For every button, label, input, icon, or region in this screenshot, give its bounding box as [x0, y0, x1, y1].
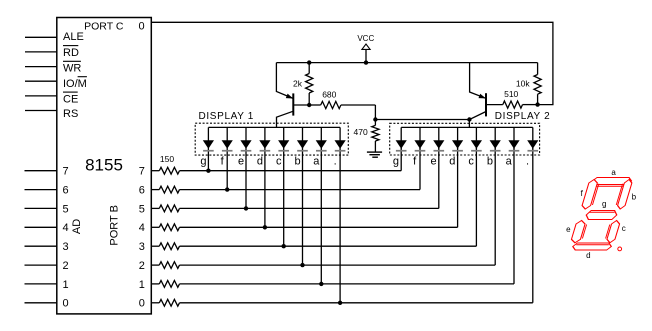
label DISPLAY 2 [495, 111, 551, 122]
node PB2 to display1 [300, 263, 304, 267]
wire pin AD2 [25, 264, 57, 266]
svg-text:IO/M: IO/M [63, 78, 87, 90]
svg-text:RD: RD [63, 47, 79, 59]
pin number PB7 [139, 166, 145, 178]
LED segment D1-d [259, 140, 270, 151]
svg-text:0: 0 [138, 20, 144, 32]
wire riser display2 . [532, 148, 534, 303]
segment label D2-e [430, 156, 436, 168]
pin number AD1 [63, 279, 69, 291]
svg-text:0: 0 [63, 298, 69, 310]
wire 470 node to Q2 collector [375, 119, 469, 121]
node VCC on rail [364, 60, 368, 64]
svg-text:1: 1 [63, 279, 69, 291]
svg-text:7: 7 [63, 166, 69, 178]
display 1 dashed box [195, 123, 348, 155]
svg-text:f: f [221, 156, 225, 168]
resistor R7 150 row PB1 with wire [151, 281, 514, 288]
LED segment D1-g [203, 140, 214, 151]
red 7-segment figure segment e [570, 221, 587, 243]
pin number AD3 [63, 241, 69, 253]
pin number PB2 [139, 260, 145, 272]
node Q1 base [307, 103, 311, 107]
LED segment D1-. [335, 140, 346, 151]
label 2k [293, 78, 303, 88]
svg-text:g: g [393, 156, 399, 168]
wire pin ALE [25, 36, 57, 38]
resistor R2 150 row PB6 with wire [151, 186, 420, 193]
segment label D1-. [334, 156, 337, 168]
pin number PB1 [139, 279, 145, 291]
node 2k top [307, 60, 311, 64]
svg-text:5: 5 [63, 203, 69, 215]
red 7-segment figure segment g [585, 211, 618, 220]
wire riser display2 d [457, 148, 459, 227]
segment label D2-f [413, 156, 417, 168]
svg-text:c: c [622, 224, 626, 233]
resistor 470 [372, 120, 379, 153]
wire display2 column stub c [475, 127, 477, 148]
red figure label a [611, 168, 616, 177]
wire pin CE [25, 95, 57, 97]
segment label D2-. [526, 156, 529, 168]
node PB4 to display1 [263, 225, 267, 229]
red figure label f [581, 189, 584, 198]
resistor 510 [486, 101, 538, 108]
pin label ALE [63, 31, 84, 43]
resistor R1 150 row PB7 with wire [151, 167, 401, 174]
LED segment D1-e [240, 140, 251, 151]
transistor Q1 base bar [292, 93, 294, 115]
wire riser display2 c [475, 148, 477, 246]
resistor R6 150 row PB2 with wire [151, 262, 495, 269]
segment label D1-a [313, 156, 320, 168]
LED segment D2-f [414, 140, 425, 151]
LED segment D2-d [452, 140, 463, 151]
svg-text:c: c [468, 156, 474, 168]
svg-text:.: . [334, 156, 337, 168]
label PORT C [84, 20, 124, 32]
pin number AD6 [63, 185, 69, 197]
segment label D2-g [393, 156, 399, 168]
resistor 680 [309, 101, 375, 119]
wire display1 column d [264, 127, 266, 227]
label 10k [516, 78, 530, 88]
svg-text:e: e [430, 156, 436, 168]
svg-text:PORT C: PORT C [84, 20, 124, 32]
segment label D2-d [449, 156, 455, 168]
wire riser display2 e [438, 148, 440, 208]
red 7-segment figure segment a [591, 178, 633, 187]
wire pin RD [25, 51, 57, 53]
wire display2 column stub e [438, 127, 440, 148]
wire display2 column stub a [513, 127, 515, 148]
svg-text:d: d [449, 156, 455, 168]
red 7-segment figure segment b [615, 180, 633, 210]
svg-text:10k: 10k [516, 78, 530, 88]
label DISPLAY 1 [199, 111, 255, 122]
svg-text:6: 6 [139, 185, 145, 197]
segment label D1-d [257, 156, 263, 168]
red 7-segment figure segment d [572, 243, 613, 250]
ground [367, 152, 382, 157]
node PB7 to display1 [206, 169, 210, 173]
transistor Q1 emitter arrow [286, 94, 293, 99]
svg-text:d: d [586, 251, 590, 260]
red figure label d [586, 251, 590, 260]
svg-text:c: c [276, 156, 282, 168]
LED segment D2-a [508, 140, 519, 151]
red figure label b [632, 192, 637, 201]
pin number AD0 [63, 298, 69, 310]
wire VCC rail [276, 62, 537, 64]
resistor R8 150 row PB0 with wire [151, 299, 533, 306]
wire pin RS [25, 110, 57, 112]
svg-text:7: 7 [139, 166, 145, 178]
resistor 10k [534, 63, 541, 105]
transistor Q2 base bar [485, 93, 487, 116]
segment label D1-e [238, 156, 244, 168]
pin label WR [63, 61, 81, 74]
wire pin AD3 [25, 245, 57, 247]
svg-text:2: 2 [139, 260, 145, 272]
wire pin AD5 [25, 207, 57, 209]
node PB0 to display1 [338, 301, 342, 305]
VCC supply symbol [357, 34, 374, 63]
wire pin AD6 [25, 189, 57, 191]
wire PC0 to 10k node [151, 22, 553, 104]
label PORT B [109, 205, 121, 246]
svg-text:RS: RS [63, 108, 78, 120]
wire display2 column stub b [494, 127, 496, 148]
svg-text:a: a [313, 156, 320, 168]
svg-text:6: 6 [63, 185, 69, 197]
red 7-segment figure segment f [581, 180, 600, 210]
svg-text:e: e [566, 225, 571, 234]
svg-text:f: f [413, 156, 417, 168]
svg-text:g: g [200, 156, 206, 168]
wire display2 column stub d [457, 127, 459, 148]
svg-text:2: 2 [63, 260, 69, 272]
pin number PC0 [138, 20, 144, 32]
wire display1 column e [245, 127, 247, 208]
svg-text:4: 4 [139, 222, 145, 234]
svg-text:a: a [611, 168, 616, 177]
segment label D2-c [468, 156, 474, 168]
pin number PB6 [139, 185, 145, 197]
svg-text:DISPLAY 2: DISPLAY 2 [495, 111, 551, 122]
svg-text:150: 150 [160, 154, 174, 164]
svg-text:3: 3 [139, 241, 145, 253]
segment label D2-a [506, 156, 513, 168]
wire pin WR [25, 66, 57, 68]
wire riser display2 b [494, 148, 496, 265]
pin number AD4 [63, 222, 69, 234]
pin label IO/M [63, 77, 87, 90]
svg-text:.: . [526, 156, 529, 168]
svg-text:e: e [238, 156, 244, 168]
pin number AD7 [63, 166, 69, 178]
svg-text:b: b [632, 192, 637, 201]
wire display2 anode bus [401, 126, 533, 128]
wire display1 column . [339, 127, 341, 302]
svg-text:8155: 8155 [85, 155, 123, 174]
red figure label e [566, 225, 571, 234]
wire display1 column f [226, 127, 228, 189]
svg-text:680: 680 [322, 89, 336, 99]
pin number PB4 [139, 222, 145, 234]
pin label CE [63, 92, 78, 105]
label 680 [322, 89, 336, 99]
node PB3 to display1 [282, 244, 286, 248]
segment label D1-c [276, 156, 282, 168]
wire pin AD7 [25, 170, 57, 172]
svg-text:2k: 2k [293, 78, 303, 88]
svg-text:AD: AD [71, 219, 83, 234]
node PB6 to display1 [225, 187, 229, 191]
node 470 top [373, 117, 377, 121]
display 2 dashed box [390, 123, 540, 155]
svg-text:b: b [487, 156, 493, 168]
segment label D1-f [221, 156, 225, 168]
label 510 [504, 89, 518, 99]
LED segment D1-f [222, 140, 233, 151]
resistor R5 150 row PB3 with wire [151, 243, 476, 250]
svg-text:b: b [294, 156, 300, 168]
svg-text:WR: WR [63, 63, 81, 75]
wire display1 column g [207, 127, 209, 170]
node PB1 to display1 [319, 282, 323, 286]
wire display2 column stub g [400, 127, 402, 148]
wire riser display2 g [400, 148, 402, 171]
svg-text:470: 470 [354, 127, 368, 137]
red figure label g [602, 199, 606, 208]
label 470 [354, 127, 368, 137]
red figure label c [622, 224, 626, 233]
red 7-segment figure segment c [604, 221, 620, 243]
pin number PB3 [139, 241, 145, 253]
red 7-segment decimal point [618, 247, 622, 251]
wire display2 column stub f [419, 127, 421, 148]
wire Q1 base [293, 104, 309, 106]
wire display1 anode bus [208, 126, 340, 128]
wire pin AD1 [25, 283, 57, 285]
wire pin AD0 [25, 302, 57, 304]
svg-text:VCC: VCC [357, 34, 374, 43]
segment label D1-g [200, 156, 206, 168]
pin number PB5 [139, 203, 145, 215]
LED segment D2-g [396, 140, 407, 151]
wire Q1 collector [277, 111, 294, 127]
LED segment D1-b [297, 140, 308, 151]
node Q2 collector [467, 117, 471, 121]
svg-text:PORT B: PORT B [109, 205, 121, 246]
segment label D2-b [487, 156, 493, 168]
resistor R1 150 label [160, 154, 174, 164]
8155 IC U1 body [57, 18, 152, 314]
LED segment D2-b [490, 140, 501, 151]
svg-text:ALE: ALE [63, 31, 84, 43]
wire display2 column stub . [532, 127, 534, 148]
wire Q2 collector [469, 112, 486, 128]
wire riser display2 a [513, 148, 515, 284]
resistor R3 150 row PB5 with wire [151, 205, 439, 212]
pin label RS [63, 108, 78, 120]
wire riser display2 f [419, 148, 421, 190]
svg-text:3: 3 [63, 241, 69, 253]
LED segment D2-c [471, 140, 482, 151]
resistor 2k [306, 63, 313, 105]
wire display1 column a [320, 127, 322, 284]
svg-text:a: a [506, 156, 513, 168]
svg-text:CE: CE [63, 93, 78, 105]
svg-text:f: f [581, 189, 584, 198]
LED segment D1-a [316, 140, 327, 151]
LED segment D2-e [433, 140, 444, 151]
wire pin AD4 [25, 226, 57, 228]
svg-text:5: 5 [139, 203, 145, 215]
svg-text:1: 1 [139, 279, 145, 291]
pin label RD [63, 46, 79, 59]
svg-text:DISPLAY 1: DISPLAY 1 [199, 111, 255, 122]
resistor R4 150 row PB4 with wire [151, 224, 457, 231]
svg-text:g: g [602, 199, 606, 208]
svg-text:4: 4 [63, 222, 69, 234]
svg-text:0: 0 [139, 298, 145, 310]
node PB5 to display1 [244, 206, 248, 210]
wire display1 column b [302, 127, 304, 265]
wire Q2 emitter from rail [470, 63, 486, 99]
pin number PB0 [139, 298, 145, 310]
svg-text:510: 510 [504, 89, 518, 99]
LED segment D2-. [527, 140, 538, 151]
transistor Q2 emitter arrow [479, 94, 486, 99]
wire Q1 emitter from rail [276, 63, 293, 99]
label 8155 [85, 155, 123, 174]
label AD [71, 219, 83, 234]
wire display1 column c [283, 127, 285, 246]
node 10k bottom [535, 102, 539, 106]
pin number AD5 [63, 203, 69, 215]
LED segment D1-c [278, 140, 289, 151]
pin number AD2 [63, 260, 69, 272]
svg-text:d: d [257, 156, 263, 168]
wire pin IO/M [25, 80, 57, 82]
segment label D1-b [294, 156, 300, 168]
